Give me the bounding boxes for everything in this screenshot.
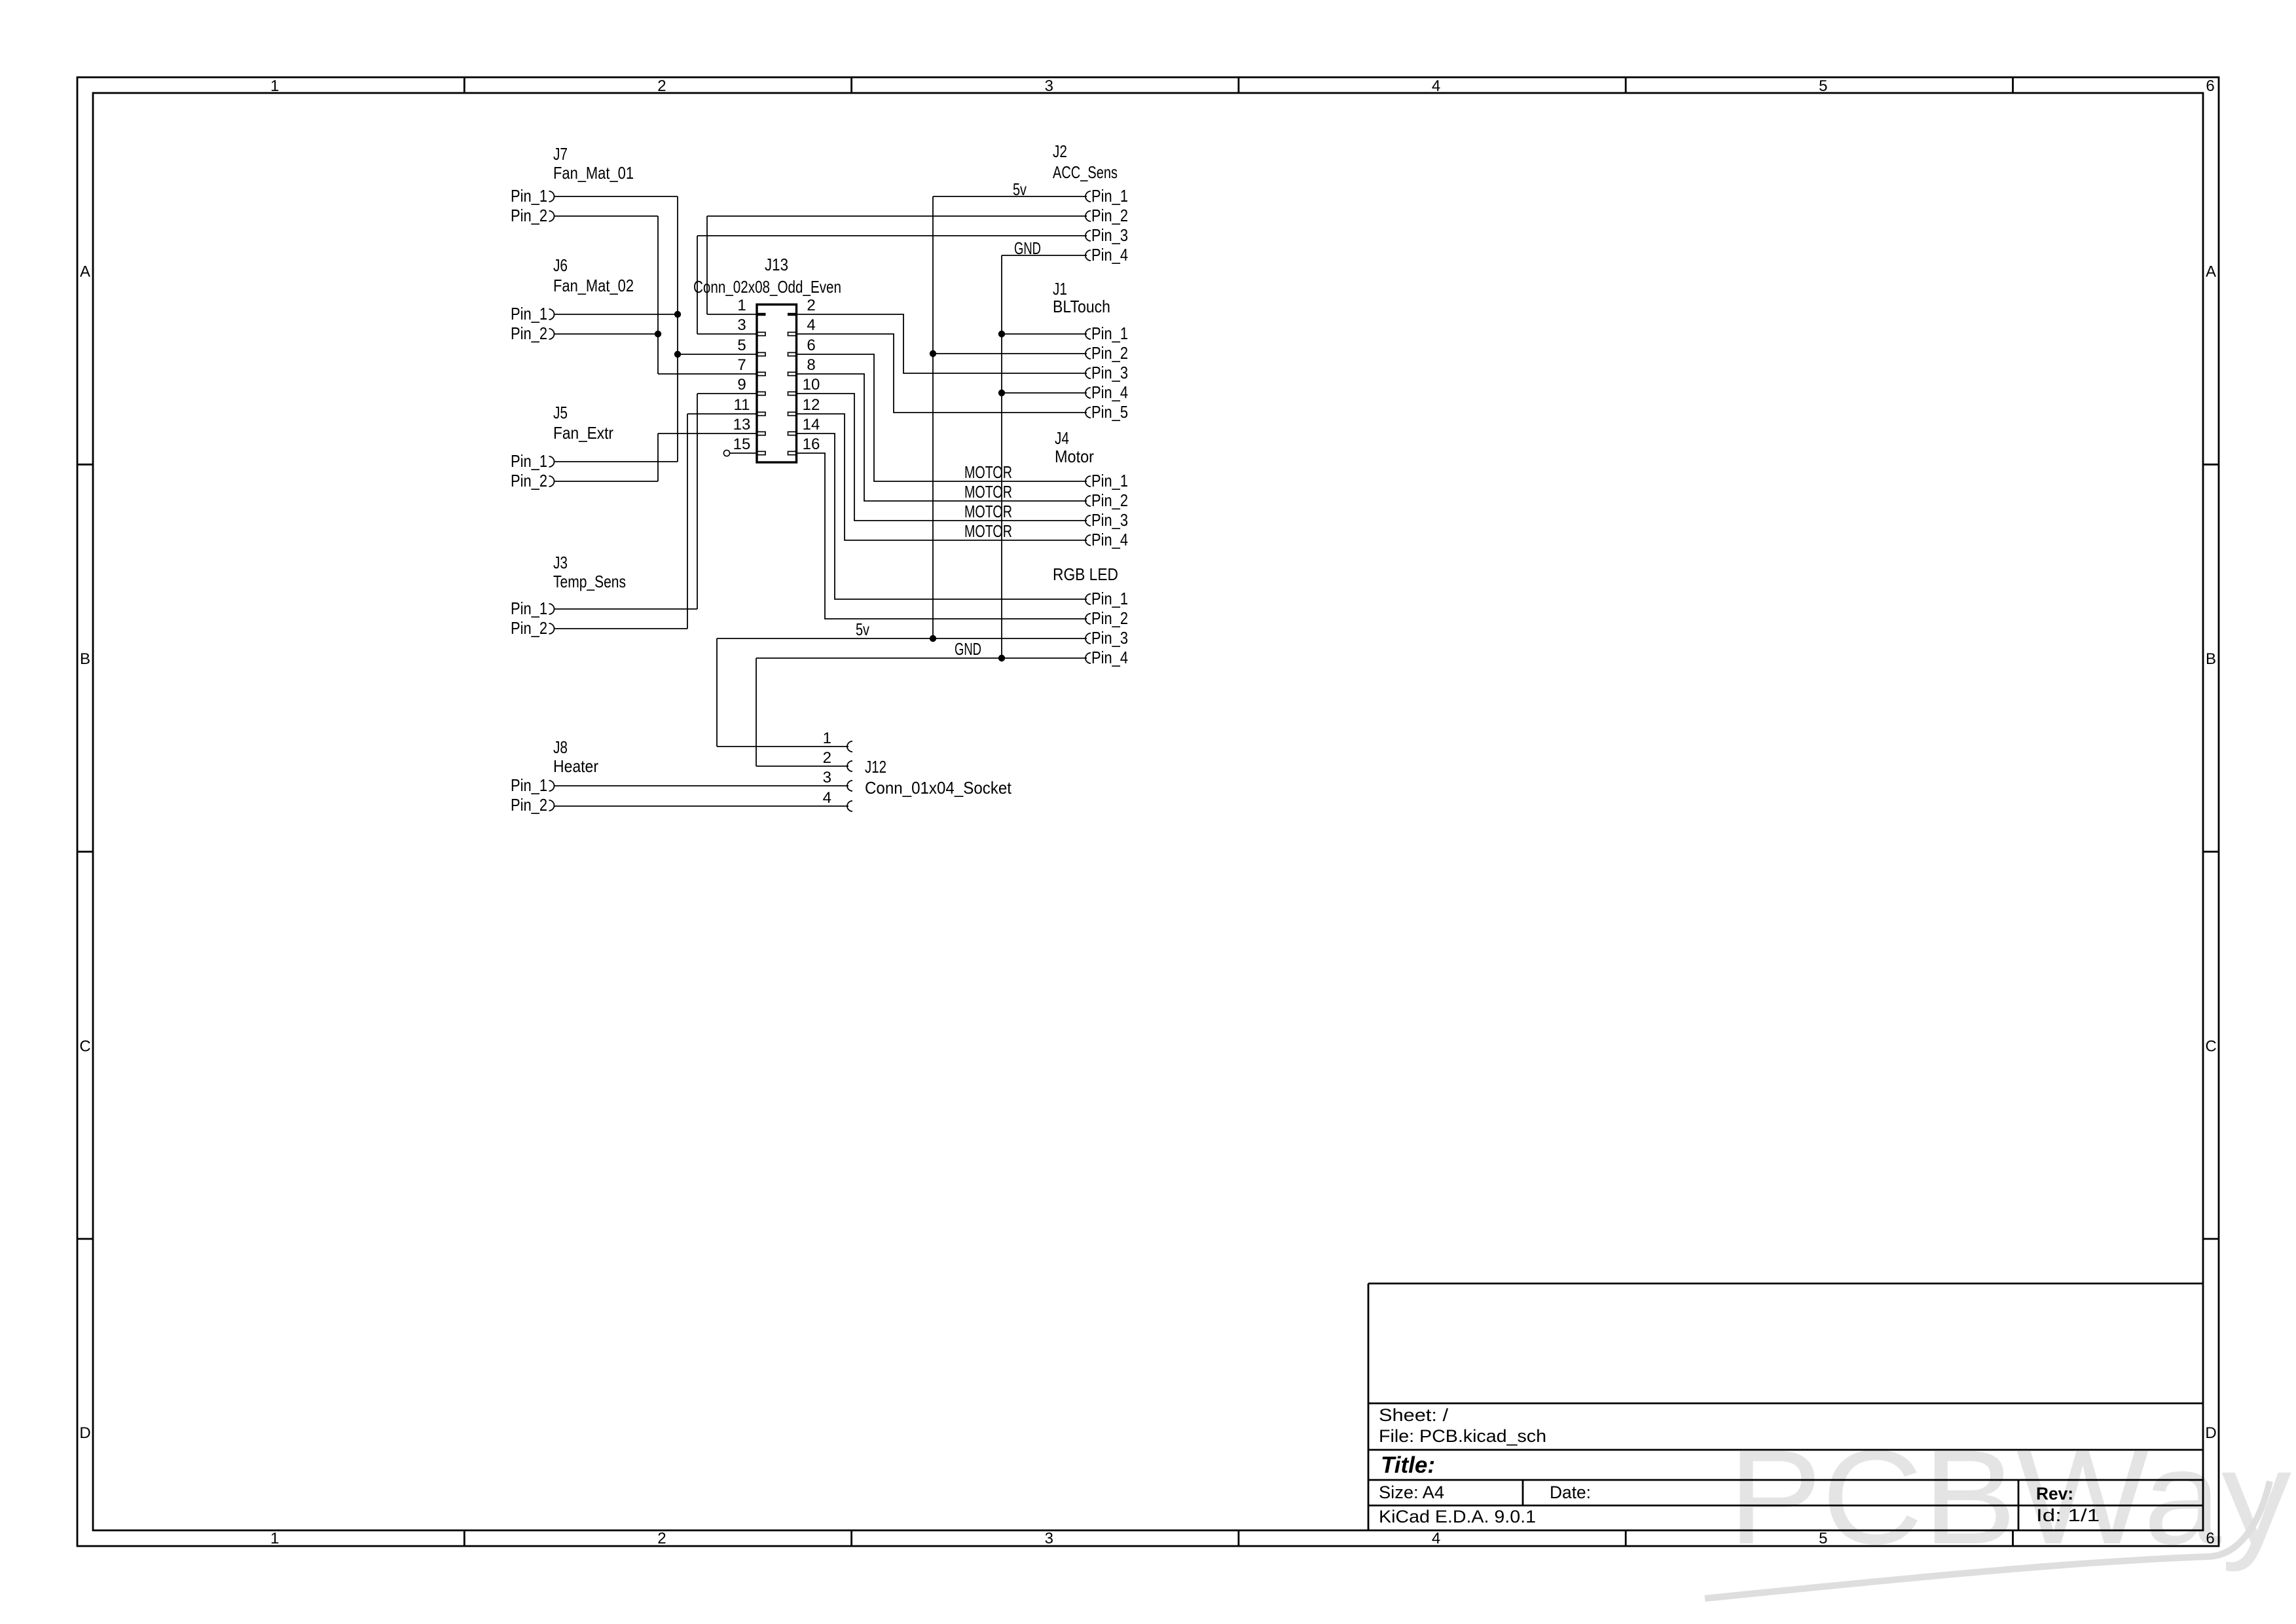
- svg-text:Pin_1: Pin_1: [1091, 323, 1128, 343]
- svg-text:7: 7: [737, 356, 746, 374]
- svg-text:Motor: Motor: [1055, 447, 1094, 466]
- svg-text:16: 16: [803, 435, 820, 453]
- svg-text:Pin_1: Pin_1: [1091, 186, 1128, 206]
- svg-text:B: B: [80, 650, 90, 668]
- svg-text:J1: J1: [1053, 279, 1067, 299]
- svg-text:4: 4: [1432, 1530, 1440, 1547]
- svg-text:RGB LED: RGB LED: [1053, 564, 1118, 584]
- svg-text:2: 2: [657, 77, 666, 95]
- svg-text:1: 1: [270, 1530, 279, 1547]
- svg-text:Sheet: /: Sheet: /: [1379, 1405, 1449, 1425]
- svg-text:Pin_1: Pin_1: [511, 599, 547, 618]
- svg-text:J2: J2: [1053, 141, 1067, 161]
- svg-text:J6: J6: [553, 255, 568, 275]
- svg-text:Date:: Date:: [1550, 1483, 1591, 1502]
- svg-text:5: 5: [1819, 77, 1827, 95]
- svg-text:Pin_4: Pin_4: [1091, 382, 1128, 402]
- svg-text:J13: J13: [765, 255, 788, 274]
- svg-text:1: 1: [737, 297, 746, 314]
- svg-text:MOTOR: MOTOR: [964, 521, 1012, 541]
- svg-text:Pin_1: Pin_1: [511, 775, 547, 795]
- svg-text:Pin_4: Pin_4: [1091, 648, 1128, 667]
- svg-text:J4: J4: [1055, 428, 1069, 448]
- svg-text:2: 2: [657, 1530, 666, 1547]
- svg-text:12: 12: [803, 396, 820, 414]
- svg-text:1: 1: [270, 77, 279, 95]
- svg-text:File: PCB.kicad_sch: File: PCB.kicad_sch: [1379, 1426, 1546, 1446]
- svg-text:J8: J8: [553, 737, 568, 757]
- svg-text:6: 6: [2206, 1530, 2214, 1547]
- svg-text:3: 3: [823, 769, 831, 786]
- svg-text:Pin_5: Pin_5: [1091, 402, 1128, 422]
- svg-text:J3: J3: [553, 553, 568, 572]
- svg-text:5: 5: [1819, 1530, 1827, 1547]
- svg-text:J5: J5: [553, 403, 568, 422]
- svg-text:PCBWay: PCBWay: [1728, 1422, 2292, 1572]
- svg-text:5v: 5v: [856, 619, 869, 639]
- svg-text:A: A: [2206, 263, 2216, 281]
- svg-text:Pin_2: Pin_2: [511, 795, 547, 815]
- svg-text:2: 2: [807, 297, 815, 314]
- svg-text:J7: J7: [553, 144, 568, 164]
- svg-text:Pin_2: Pin_2: [1091, 343, 1128, 363]
- svg-text:Heater: Heater: [553, 756, 598, 776]
- svg-text:15: 15: [733, 435, 751, 453]
- svg-text:C: C: [79, 1037, 90, 1055]
- svg-text:Pin_1: Pin_1: [511, 304, 547, 323]
- svg-text:Fan_Extr: Fan_Extr: [553, 423, 613, 443]
- svg-text:11: 11: [734, 396, 750, 414]
- svg-text:Pin_2: Pin_2: [1091, 206, 1128, 225]
- svg-text:ACC_Sens: ACC_Sens: [1053, 162, 1118, 182]
- svg-text:Pin_2: Pin_2: [1091, 608, 1128, 628]
- svg-text:13: 13: [733, 416, 751, 434]
- svg-text:6: 6: [807, 337, 815, 354]
- svg-text:Pin_3: Pin_3: [1091, 225, 1128, 245]
- svg-text:Fan_Mat_02: Fan_Mat_02: [553, 276, 634, 295]
- svg-text:J12: J12: [865, 757, 886, 777]
- svg-text:3: 3: [737, 316, 746, 334]
- svg-text:Pin_3: Pin_3: [1091, 628, 1128, 648]
- svg-text:Pin_1: Pin_1: [511, 451, 547, 471]
- svg-text:Pin_1: Pin_1: [511, 186, 547, 206]
- svg-text:3: 3: [1045, 77, 1053, 95]
- svg-text:C: C: [2205, 1037, 2216, 1055]
- svg-text:D: D: [79, 1424, 90, 1442]
- svg-text:3: 3: [1045, 1530, 1053, 1547]
- svg-text:Conn_02x08_Odd_Even: Conn_02x08_Odd_Even: [693, 277, 841, 297]
- svg-text:Pin_4: Pin_4: [1091, 530, 1128, 549]
- svg-text:MOTOR: MOTOR: [964, 462, 1012, 482]
- svg-text:Id: 1/1: Id: 1/1: [2036, 1505, 2100, 1525]
- svg-text:5: 5: [737, 337, 746, 354]
- svg-text:Size: A4: Size: A4: [1379, 1483, 1444, 1502]
- svg-text:Pin_2: Pin_2: [511, 471, 547, 490]
- svg-text:Fan_Mat_01: Fan_Mat_01: [553, 163, 634, 183]
- svg-text:GND: GND: [955, 639, 981, 659]
- svg-text:MOTOR: MOTOR: [964, 502, 1012, 521]
- svg-text:Title:: Title:: [1381, 1452, 1435, 1478]
- svg-text:14: 14: [803, 416, 820, 434]
- svg-text:D: D: [2205, 1424, 2216, 1442]
- svg-text:Pin_1: Pin_1: [1091, 589, 1128, 608]
- svg-text:10: 10: [803, 376, 820, 394]
- svg-text:4: 4: [807, 316, 815, 334]
- svg-text:Rev:: Rev:: [2036, 1484, 2073, 1504]
- svg-text:Conn_01x04_Socket: Conn_01x04_Socket: [865, 778, 1012, 798]
- svg-text:6: 6: [2206, 77, 2214, 95]
- svg-text:Pin_4: Pin_4: [1091, 245, 1128, 265]
- svg-text:1: 1: [823, 729, 831, 747]
- svg-text:4: 4: [823, 789, 831, 807]
- svg-text:Pin_2: Pin_2: [511, 206, 547, 225]
- svg-text:4: 4: [1432, 77, 1440, 95]
- svg-text:KiCad E.D.A. 9.0.1: KiCad E.D.A. 9.0.1: [1379, 1507, 1536, 1526]
- svg-text:Pin_3: Pin_3: [1091, 510, 1128, 530]
- svg-text:Pin_1: Pin_1: [1091, 471, 1128, 490]
- svg-text:8: 8: [807, 356, 815, 374]
- svg-text:Temp_Sens: Temp_Sens: [553, 572, 626, 591]
- svg-text:Pin_2: Pin_2: [1091, 490, 1128, 510]
- svg-text:2: 2: [823, 749, 831, 767]
- svg-text:MOTOR: MOTOR: [964, 482, 1012, 502]
- svg-text:BLTouch: BLTouch: [1053, 297, 1110, 316]
- svg-text:Pin_2: Pin_2: [511, 618, 547, 638]
- svg-text:9: 9: [737, 376, 746, 394]
- svg-text:Pin_2: Pin_2: [511, 323, 547, 343]
- svg-text:A: A: [80, 263, 90, 281]
- svg-text:Pin_3: Pin_3: [1091, 363, 1128, 382]
- svg-text:B: B: [2206, 650, 2216, 668]
